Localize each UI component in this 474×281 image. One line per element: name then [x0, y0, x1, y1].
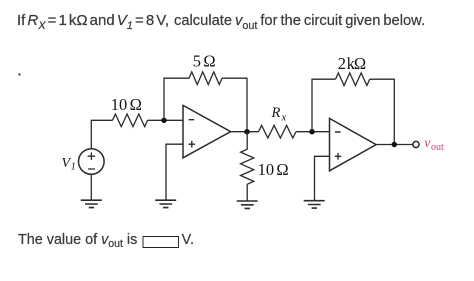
wire op1 + input to ground	[166, 144, 183, 200]
node D	[392, 142, 397, 147]
svg-text:10 Ω: 10 Ω	[111, 95, 142, 114]
label Rx	[271, 105, 287, 123]
ground (below V1)	[81, 200, 102, 207]
resistor 10ohm (horizontal)	[113, 114, 148, 127]
stray dot	[18, 73, 20, 75]
label vout	[424, 136, 444, 153]
svg-text:R: R	[271, 105, 281, 121]
wire V1 top to 10ohm	[91, 120, 112, 148]
ground (op-amp U2 + input)	[304, 201, 325, 208]
svg-text:out: out	[431, 142, 444, 153]
wire op2 + input to ground	[315, 156, 330, 200]
wire op2 output to terminal	[376, 144, 413, 146]
label 2 kohm	[338, 54, 366, 73]
node A	[161, 118, 166, 123]
wire node C up to 2k feedback rail	[312, 79, 336, 132]
label 10 ohm	[111, 95, 142, 114]
resistor 2k (feedback op-amp U2)	[336, 73, 370, 86]
label 10 ohm (vertical resistor)	[258, 160, 289, 179]
resistor Rx	[259, 125, 296, 138]
wire Rx to node C and op2 inv input	[296, 131, 330, 133]
label 5 ohm	[193, 52, 216, 71]
ground (op-amp U1 + input)	[155, 200, 176, 207]
resistor 10ohm (vertical, to ground)	[241, 132, 254, 201]
node B	[244, 129, 249, 134]
svg-text:1: 1	[71, 162, 76, 173]
answer line with blank	[18, 231, 194, 249]
svg-text:5 Ω: 5 Ω	[193, 52, 216, 71]
op-amp U2	[330, 118, 377, 170]
output terminal vout	[413, 141, 419, 147]
wire V1 bottom to ground	[90, 174, 92, 200]
svg-text:10 Ω: 10 Ω	[258, 160, 289, 179]
resistor 5ohm (feedback op-amp U1)	[189, 72, 222, 85]
wire 10ohm to node A	[148, 119, 184, 121]
node C	[309, 129, 314, 134]
op-amp U1	[183, 105, 231, 157]
problem statement text	[17, 12, 169, 29]
voltage source V1	[79, 149, 105, 175]
label V1	[62, 156, 76, 173]
svg-text:x: x	[281, 113, 287, 124]
wire 5ohm to node B	[222, 78, 247, 132]
wire op1 output to node B	[231, 131, 259, 133]
svg-text:2 kΩ: 2 kΩ	[338, 54, 366, 73]
wire 2k to node D	[370, 79, 395, 144]
wire node A up to feedback rail	[164, 78, 189, 120]
ground (below vertical 10ohm)	[237, 201, 258, 208]
